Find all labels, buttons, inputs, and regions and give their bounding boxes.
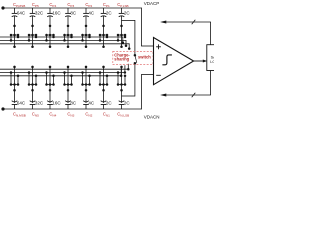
wire bottom plate lead C P7 [121,16,123,35]
node rail VRB3 corner [120,75,123,78]
wire feedback bus bottom vertical [210,71,212,96]
label - input [156,74,161,76]
capacitor CP4 value 16C [47,11,61,17]
wire switch bar top group 1 [11,34,18,36]
capacitor CP,MSB value 64C [12,11,26,17]
node contact top rail bottom 4 [67,66,70,69]
wire switch bar bottom group 5 [83,84,90,86]
svg-text:SARLOGIC: SARLOGIC [210,56,214,64]
wire switch stub to middle rail bottom 3 [46,73,48,85]
node rail VRT1 end [122,41,125,44]
node sampling junction bottom 6 [102,89,105,92]
wire switch stub to top rail bottom 3 [49,67,51,85]
svg-text:Charge-sharing: Charge-sharing [114,52,130,61]
node contact lower rail bottom 4 [70,75,73,78]
wire bottom plate lead C P1 [14,16,16,35]
wire switch stub to middle rail top 1 [10,35,12,40]
node contact middle rail bottom 4 [63,71,66,74]
wire top plate lead C P4 [67,8,69,13]
node VDACP input terminal (top-left) [1,6,4,9]
svg-text:32C: 32C [35,11,44,16]
wire bottom plate lead C N7 [121,85,123,103]
wire bottom plate lead C N2 [32,85,34,103]
arrow comparator output [203,60,207,63]
wire rail VRT3 end stub [128,43,130,48]
wire switch stub to lower rail bottom 7 [124,76,126,85]
node bar junctions bottom group 5 [81,83,91,86]
wire switch stub to upper rail top 6 [106,35,108,37]
symbol bus slash bottom [192,93,196,98]
wire switch stub to lower rail bottom 1 [17,76,19,85]
node contact upper rail top 2 [35,36,38,39]
wire comparator output [194,60,204,62]
symbol bus slash top [192,20,196,25]
wire top plate lead C N4 [67,105,69,110]
wire C P,LSB to charge-sharing switch (horiz) [122,19,135,21]
svg-text:8C: 8C [70,11,77,16]
wire switch stub to middle rail top 7 [117,35,119,40]
wire reference rail VRT2 (top) [0,39,126,41]
wire top plate lead C N5 [85,105,87,110]
wire top plate lead C N7 [121,105,123,110]
node contact lower rail top 2 [31,45,34,48]
wire switch bar bottom group 7 [118,84,125,86]
node bar junctions bottom group 1 [10,83,20,86]
wire top plate lead C P6 [103,8,105,13]
node contact lower rail top 5 [85,45,88,48]
wire switch stub to top rail bottom 1 [14,67,16,85]
node sampling junction bottom 4 [67,89,70,92]
node contact upper rail top 4 [70,36,73,39]
node contact upper rail top 6 [106,36,109,39]
wire switch stub to lower rail bottom 6 [106,76,108,85]
capacitor CP1 value 2C [101,11,113,17]
capacitor CP,LSB value 2C [119,11,131,17]
svg-text:2C: 2C [106,11,113,16]
node contact middle rail bottom 5 [81,71,84,74]
wire top plate lead C P1 [14,8,16,13]
node contact top rail bottom 2 [31,66,34,69]
node contact lower rail bottom 2 [35,75,38,78]
wire rail VRT2 end stub [125,40,127,46]
box charge-sharing switch (red dashed) [113,51,153,64]
capacitor CP2 value 4C [83,11,95,17]
node contact lower rail bottom 7 [124,75,127,78]
wire rail VRT1 end stub [122,37,124,43]
wire switch stub to middle rail top 6 [99,35,101,40]
wire bottom plate lead C P5 [85,16,87,35]
wire bottom rail VDACN [3,108,142,110]
wire switch stub to lower rail top 4 [67,35,69,47]
wire switch bar bottom group 4 [65,84,72,86]
svg-text:switch: switch [138,54,151,59]
svg-text:4C: 4C [88,100,95,105]
wire switch stub to middle rail bottom 2 [28,73,30,85]
wire bottom plate lead C P6 [103,16,105,35]
switch S charge-sharing lever [135,55,137,63]
capacitor CN1 value 2C [101,100,113,105]
wire switch bar bottom group 2 [29,84,36,86]
node contact top rail bottom 5 [85,66,88,69]
capacitor CN2 value 4C [83,100,95,105]
wire switch stub to lower rail bottom 4 [71,76,73,85]
wire bottom plate lead C N4 [67,85,69,103]
wire switch stub to top rail bottom 7 [121,67,123,85]
capacitor CP5 value 32C [30,11,44,17]
wire switch bar top group 6 [100,34,107,36]
wire VDACP to comparator + input [141,45,153,47]
node sampling junction top 4 [67,25,70,28]
node contact top rail bottom 7 [120,66,123,69]
wire top plate lead C N2 [32,105,34,110]
node contact lower rail top 4 [67,45,70,48]
node sampling junction bottom 3 [49,89,52,92]
wire switch stub to lower rail bottom 2 [35,76,37,85]
capacitor CN,LSB value 2C [119,100,131,105]
node sampling junction bottom 2 [31,89,34,92]
node contact lower rail top 6 [102,45,105,48]
wire switch stub to middle rail bottom 6 [99,73,101,85]
node rail VRB2 corner [124,71,127,74]
wire switch stub to middle rail bottom 7 [117,73,119,85]
wire charge-sharing switch lower lead [134,63,136,96]
node contact top rail bottom 3 [49,66,52,69]
node contact top rail bottom 6 [102,66,105,69]
wire switch stub to upper rail top 7 [124,35,126,37]
node sampling junction bottom 7 [120,89,123,92]
wire rail VRB1 end stub [127,64,129,70]
wire top plate lead C P3 [49,8,51,13]
node rail VRB1 corner [127,68,130,71]
wire switch stub to top rail bottom 6 [103,67,105,85]
wire switch stub to lower rail top 3 [49,35,51,47]
wire rail VRB3 end stub [120,67,122,76]
op-amp U1 comparator [154,38,194,85]
node sampling junction top 2 [31,25,34,28]
node sampling junction top 7 [120,25,123,28]
node bar junctions bottom group 2 [28,83,38,86]
node contact lower rail top 3 [49,45,52,48]
node contact upper rail top 5 [88,36,91,39]
node contact middle rail top 3 [45,39,48,42]
wire reference rail VRT3 (top) [0,43,129,45]
wire feedback bus top vertical [210,22,212,45]
wire bottom plate lead C N3 [49,85,51,103]
node bar junctions top group 7 [117,34,127,37]
wire charge-sharing switch upper lead [134,20,136,55]
wire top plate lead C P5 [85,8,87,13]
capacitor CN,MSB value 64C [12,100,26,105]
node contact lower rail bottom 1 [17,75,20,78]
svg-text:VDACN: VDACN [144,115,160,120]
wire bottom plate lead C N5 [85,85,87,103]
wire switch stub to lower rail bottom 5 [89,76,91,85]
wire switch bar top group 2 [29,34,36,36]
wire switch bar bottom group 1 [11,84,18,86]
wire switch stub to lower rail top 6 [103,35,105,47]
wire switch stub to middle rail bottom 1 [10,73,12,85]
label + input [156,44,161,49]
wire switch stub to middle rail bottom 5 [82,73,84,85]
svg-text:64C: 64C [17,11,26,16]
wire rail VRB2 end stub [124,65,126,73]
wire switch stub to upper rail top 3 [53,35,55,37]
node sampling junction top 3 [49,25,52,28]
wire top plate lead C P7 [121,8,123,13]
wire VDACN up to comparator [141,75,143,110]
node bar junctions bottom group 7 [117,83,127,86]
wire top plate lead C P2 [32,8,34,13]
node sampling junction top 5 [85,25,88,28]
node contact middle rail bottom 3 [45,71,48,74]
wire switch stub to lower rail top 7 [121,35,123,47]
node sampling junction bottom 5 [85,89,88,92]
node bar junctions bottom group 4 [63,83,73,86]
node contact middle rail bottom 6 [99,71,102,74]
node bar junctions top group 2 [28,34,38,37]
wire switch bar top group 3 [47,34,54,36]
wire switch stub to middle rail top 2 [28,35,30,40]
wire reference rail VRB3 (bottom) [0,75,121,77]
wire switch stub to top rail bottom 4 [67,67,69,85]
capacitor CP3 value 8C [65,11,77,17]
node sampling junction bottom 1 [13,89,16,92]
svg-text:2C: 2C [106,100,113,105]
svg-text:16C: 16C [52,100,61,105]
svg-text:8C: 8C [70,100,77,105]
wire switch stub to top rail bottom 2 [32,67,34,85]
node contact upper rail top 1 [17,36,20,39]
wire reference rail VRT1 (top) [0,36,123,38]
capacitor CN4 value 16C [47,100,61,105]
arrow feedback bus top [160,21,166,24]
node contact middle rail top 4 [63,39,66,42]
wire switch stub to middle rail top 4 [64,35,66,40]
wire bottom plate lead C P2 [32,16,34,35]
wire switch stub to upper rail top 4 [71,35,73,37]
node bar junctions top group 6 [99,34,109,37]
symbol comparator step response [162,55,172,65]
wire switch stub to lower rail top 1 [14,35,16,47]
capacitor CN3 value 8C [65,100,77,105]
arrow feedback bus bottom [160,94,166,97]
wire switch bar top group 4 [65,34,72,36]
wire top rail VDACP [3,7,142,9]
node bar junctions bottom group 6 [99,83,109,86]
wire bottom plate lead C N1 [14,85,16,103]
node contact middle rail bottom 1 [10,71,13,74]
node bar junctions top group 5 [81,34,91,37]
wire reference rail VRB2 (bottom) [0,72,125,74]
node VDACN input terminal (bottom-left) [1,107,4,110]
wire top plate lead C N6 [103,105,105,110]
node contact upper rail top 7 [124,36,127,39]
wire C N,LSB to charge-sharing switch (horiz) [122,95,135,97]
node contact lower rail bottom 6 [106,75,109,78]
node sampling junction top 6 [102,25,105,28]
svg-text:2C: 2C [124,100,131,105]
node contact middle rail top 6 [99,39,102,42]
wire feedback bus bottom horizontal [164,94,211,96]
wire switch stub to middle rail top 3 [46,35,48,40]
node rail VRT3 end [128,47,131,50]
svg-text:16C: 16C [52,11,61,16]
wire switch stub to top rail bottom 5 [85,67,87,85]
svg-text:4C: 4C [88,11,95,16]
svg-text:64C: 64C [17,100,26,105]
wire switch bar top group 7 [118,34,125,36]
node bar junctions top group 1 [10,34,20,37]
wire VDACN to comparator - input [141,74,153,76]
wire switch stub to lower rail top 5 [85,35,87,47]
block SAR logic [207,45,223,71]
node bar junctions top group 4 [63,34,73,37]
node contact middle rail top 2 [28,39,31,42]
wire reference rail VRB1 (bottom) [0,68,128,70]
wire switch bar top group 5 [83,34,90,36]
node sampling junction top 1 [13,25,16,28]
wire switch stub to middle rail bottom 4 [64,73,66,85]
wire switch stub to lower rail top 2 [32,35,34,47]
node contact middle rail top 1 [10,39,13,42]
wire switch stub to upper rail top 1 [17,35,19,37]
node contact middle rail top 5 [81,39,84,42]
wire bottom plate lead C P3 [49,16,51,35]
wire top plate lead C N3 [49,105,51,110]
wire switch stub to middle rail top 5 [82,35,84,40]
svg-text:32C: 32C [35,100,44,105]
node contact lower rail bottom 5 [88,75,91,78]
node contact middle rail top 7 [117,39,120,42]
wire bottom plate lead C P4 [67,16,69,35]
node rail VRT2 end [125,45,128,48]
node contact lower rail bottom 3 [52,75,55,78]
svg-text:VDACP: VDACP [144,1,160,6]
node bar junctions top group 3 [45,34,55,37]
svg-text:2C: 2C [124,11,131,16]
node bar junctions bottom group 3 [45,83,55,86]
wire top plate lead C N1 [14,105,16,110]
switch S charge-sharing contacts [134,54,137,65]
wire VDACP down to comparator [141,8,143,46]
node contact lower rail top 1 [13,45,16,48]
wire switch stub to upper rail top 2 [35,35,37,37]
wire switch bar bottom group 6 [100,84,107,86]
node contact upper rail top 3 [52,36,55,39]
wire switch stub to lower rail bottom 3 [53,76,55,85]
wire feedback bus top horizontal [164,21,211,23]
wire switch bar bottom group 3 [47,84,54,86]
wire switch stub to upper rail top 5 [89,35,91,37]
node contact middle rail bottom 2 [28,71,31,74]
capacitor CN5 value 32C [30,100,44,105]
node contact top rail bottom 1 [13,66,16,69]
node contact lower rail top 7 [120,45,123,48]
node contact middle rail bottom 7 [117,71,120,74]
wire bottom plate lead C N6 [103,85,105,103]
